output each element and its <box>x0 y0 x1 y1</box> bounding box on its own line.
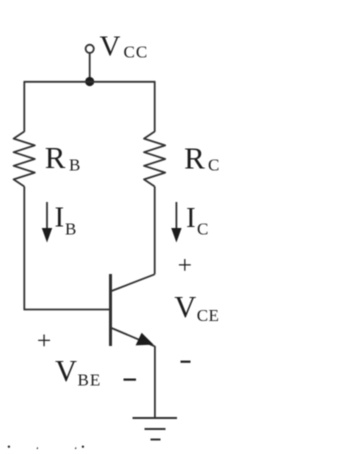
current arrow IB <box>46 202 48 229</box>
svg-text:+: + <box>178 250 192 279</box>
svg-text:BE: BE <box>78 371 102 390</box>
Vcc terminal circle <box>86 45 94 53</box>
svg-text:instructions: instructions <box>6 440 121 449</box>
resistor RB <box>14 132 35 187</box>
label minus VBE <box>124 379 137 381</box>
svg-text:I: I <box>186 202 196 234</box>
svg-text:R: R <box>45 140 66 175</box>
transistor Q1 base bar <box>109 274 112 346</box>
current arrow IC <box>175 202 177 229</box>
svg-text:R: R <box>184 140 205 175</box>
wire: terminal to junction <box>89 53 91 82</box>
wire: emitter to ground <box>154 346 156 418</box>
node: junction dot <box>85 77 94 86</box>
svg-text:V: V <box>174 290 196 324</box>
ground <box>133 418 178 440</box>
transistor Q1 collector lead <box>112 274 155 291</box>
svg-text:B: B <box>69 156 80 175</box>
svg-text:C: C <box>208 156 219 175</box>
svg-text:V: V <box>100 30 121 62</box>
svg-text:I: I <box>55 202 65 234</box>
label minus VCE <box>181 361 191 363</box>
wire: left branch top vertical <box>23 82 25 132</box>
wire: top horizontal rail <box>24 81 156 83</box>
svg-text:CE: CE <box>197 306 220 325</box>
svg-text:B: B <box>65 219 76 238</box>
wire: left branch below RB <box>23 187 25 310</box>
resistor RC <box>144 132 165 187</box>
wire: right branch below RC (collector wire) <box>154 187 156 275</box>
svg-text:V: V <box>55 354 77 388</box>
wire: right branch top vertical <box>154 82 156 132</box>
svg-text:CC: CC <box>124 43 149 62</box>
wire: base wire <box>24 309 110 311</box>
svg-text:+: + <box>37 326 51 355</box>
svg-text:C: C <box>197 219 208 238</box>
transistor Q1 emitter lead <box>112 328 155 346</box>
transistor Q1 emitter arrowhead <box>136 333 154 346</box>
